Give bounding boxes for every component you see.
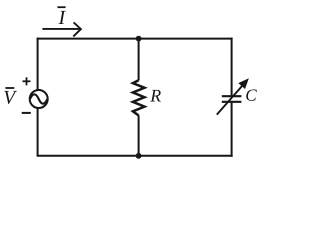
source V1 (AC source circle) bbox=[30, 90, 48, 108]
node A (top junction dot) bbox=[136, 36, 142, 42]
label I overbar bbox=[57, 6, 65, 8]
label C bbox=[246, 89, 257, 100]
wire right lower (capacitor bottom lead) bbox=[231, 103, 233, 157]
wire middle upper (resistor top lead) bbox=[138, 39, 140, 81]
capacitor variable arrowhead bbox=[239, 79, 248, 88]
wire middle lower (resistor bottom lead) bbox=[138, 115, 140, 155]
wire left upper (source top lead) bbox=[37, 38, 39, 91]
wire top-left segment bbox=[37, 38, 139, 40]
capacitor C bottom plate bbox=[222, 101, 242, 103]
resistor R (zigzag) bbox=[133, 80, 145, 115]
capacitor C top plate bbox=[222, 95, 242, 97]
current arrow I bbox=[42, 22, 81, 36]
polarity minus sign bbox=[22, 112, 31, 114]
label V (phasor V with overbar) bbox=[4, 91, 17, 104]
wire bottom-right segment bbox=[139, 155, 233, 157]
wire bottom-left segment bbox=[37, 155, 139, 157]
polarity plus sign bbox=[23, 77, 31, 85]
wire right upper (capacitor top lead) bbox=[231, 38, 233, 96]
wire top-right segment bbox=[139, 38, 233, 40]
source V1 sine wave bbox=[30, 94, 47, 103]
node B (bottom junction dot) bbox=[136, 153, 142, 159]
capacitor variable arrow shaft bbox=[217, 84, 244, 114]
label R bbox=[150, 90, 161, 102]
label V overbar bbox=[5, 87, 14, 89]
wire left lower (source bottom lead) bbox=[37, 108, 39, 156]
label I (phasor I with overbar) bbox=[58, 11, 66, 24]
